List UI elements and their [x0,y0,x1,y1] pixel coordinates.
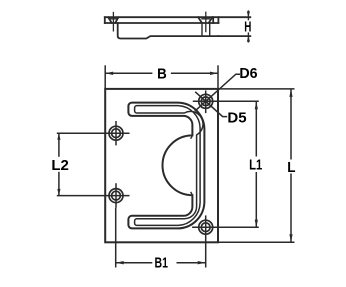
dimension L2 line [58,133,60,195]
bottom-right hole B1 extension [205,239,207,268]
right countersink cone [198,17,212,23]
top-right hole leader to D5 [195,92,227,117]
B1 right arrowhead [198,261,206,264]
top-right hole leader to D6 [195,74,240,111]
L2 top arrowhead [57,133,60,140]
dimension L1 line [255,101,257,227]
B left extension [104,65,106,89]
B1 left arrowhead [116,261,124,264]
dimension B line [105,72,218,74]
bottom-left hole [109,189,123,203]
crosshairs / extension lines [57,65,295,267]
flange top edge + H top extension line [105,16,251,18]
svg-text:L1: L1 [249,156,262,173]
right hole centerline [205,12,207,33]
L bottom arrowhead [289,234,292,242]
recess outer contour with grip bump [128,103,204,229]
L2 bottom arrowhead [57,189,60,196]
recess chamfer contour [135,106,203,226]
L1 bottom arrowhead [255,220,258,228]
holes [109,94,213,234]
H bottom extension line [218,35,250,37]
left countersink cone [108,17,118,23]
dimension H line [247,10,249,42]
L1 top arrowhead [255,101,258,109]
svg-text:D5: D5 [227,110,246,127]
L top extension [218,88,295,90]
dimension L line [290,89,292,242]
right hole sides through tray [202,23,210,36]
left countersink mouth line [110,18,117,20]
svg-text:L: L [287,159,296,176]
L bottom extension [218,241,295,243]
H bottom arrowhead [247,36,250,42]
svg-text:L2: L2 [51,157,69,174]
right end step block [212,17,214,23]
top-left hole [109,126,123,140]
svg-text:B: B [157,65,167,82]
svg-text:H: H [244,18,251,34]
B right extension [217,65,219,89]
right countersink mouth line [202,18,210,20]
flange bottom edge [105,22,219,24]
bottom-right hole [199,220,213,234]
B right arrowhead [210,72,218,75]
L top arrowhead [289,89,292,97]
bottom-right hole crosshair + L1 extension [192,226,259,228]
bottom-left hole crosshair + L2 bottom connector [57,195,130,197]
bump junction fillets [191,134,193,197]
flange plate rectangle [105,89,218,242]
top-left hole crosshair + L2 top connector [57,132,130,134]
tray outline [118,23,219,39]
flange right end [217,17,219,23]
bottom-left hole B1 extension [115,208,117,268]
dimension B1 line [116,262,206,264]
left hole centerline [112,12,114,32]
svg-text:B1: B1 [154,254,167,271]
svg-text:D6: D6 [239,66,257,82]
flange left end [104,17,106,23]
B left arrowhead [105,72,113,75]
top-right hole crosshair + L1 extension [193,100,259,102]
H top arrowhead [247,11,250,17]
top-right hole [199,94,213,108]
